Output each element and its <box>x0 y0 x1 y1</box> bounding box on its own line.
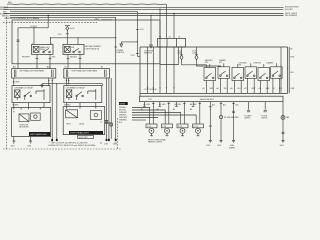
wire L3 ground lead 2 <box>30 137 32 142</box>
terminal black mid 2 <box>108 139 110 141</box>
wire inner vertical 5 <box>173 48 175 88</box>
wire legend feed 1 <box>132 108 150 125</box>
terminal bars b <box>264 110 267 112</box>
svg-text:C552: C552 <box>58 34 62 36</box>
relay K1 contact <box>44 48 50 51</box>
wire bus line 4 <box>4 13 284 15</box>
R2 inner wires <box>69 89 96 100</box>
wire L2 to L3 c <box>43 103 45 108</box>
svg-text:(15A): (15A) <box>178 52 183 55</box>
fuse arrow dash box <box>120 44 123 47</box>
lamp bulb 1 <box>149 128 154 133</box>
node bus tap C <box>159 9 160 10</box>
connector ticks under fuse box strip <box>152 102 235 104</box>
label plate left headlight (black) <box>29 132 50 136</box>
connector ticks drop <box>209 107 212 126</box>
node junction contact feed <box>50 37 51 38</box>
relay box R2 low beam cut <box>64 86 102 103</box>
svg-text:LIGHTS: LIGHTS <box>244 118 251 120</box>
svg-text:TURN SIG: TURN SIG <box>253 62 262 64</box>
svg-text:RED (DIMMER): RED (DIMMER) <box>285 15 297 17</box>
svg-text:HI/LO: HI/LO <box>67 124 72 126</box>
wire K2 out 2 <box>79 54 81 68</box>
wire R3 to mid vertical <box>105 122 112 124</box>
terminal bars spare drops <box>143 106 194 108</box>
relay K1 coil <box>33 46 39 52</box>
svg-text:LOW BEAM CUT RELAY: LOW BEAM CUT RELAY <box>66 87 86 90</box>
svg-text:C512: C512 <box>131 55 135 57</box>
wire hot feed (wavy bus line) <box>7 3 166 5</box>
svg-text:B5: B5 <box>291 48 293 50</box>
svg-text:SW: SW <box>205 62 208 64</box>
svg-text:A3: A3 <box>259 87 261 90</box>
svg-text:G202: G202 <box>217 145 221 147</box>
svg-text:A2: A2 <box>203 87 205 90</box>
svg-text:RIGHT HEADLIGHT: RIGHT HEADLIGHT <box>71 132 90 135</box>
wire L2 to L3 b <box>28 103 30 108</box>
terminal bars a <box>247 110 250 112</box>
connector tick fuse out <box>66 33 69 35</box>
svg-text:G203: G203 <box>206 145 210 147</box>
svg-text:B6: B6 <box>190 109 192 111</box>
wire legend feed 6 <box>132 119 146 121</box>
wire legend feed 5 <box>132 117 158 119</box>
terminal black mid 1 <box>106 139 108 141</box>
svg-text:WHT: WHT <box>8 2 12 4</box>
wire page border dashed left <box>5 17 7 149</box>
svg-text:TAIL: TAIL <box>286 116 289 119</box>
ground G202 <box>220 141 223 143</box>
wire L1 pin b <box>51 78 53 139</box>
wire fuse No.23 out <box>182 60 207 68</box>
R3 hi-lo unit <box>66 110 78 118</box>
wire sw drops and pins <box>206 63 279 93</box>
wire branch to dash fuse <box>121 42 137 44</box>
svg-text:UNDER-HOOD FUSE/RELAY BOX (CAN: UNDER-HOOD FUSE/RELAY BOX (CANADA) <box>4 17 40 20</box>
wire link row upper <box>160 64 179 66</box>
lamp label box 3 <box>177 124 188 128</box>
svg-text:A4: A4 <box>217 87 219 90</box>
lamp bulb 3 <box>180 128 185 133</box>
wire L1 pin a <box>48 78 50 86</box>
lamp label box 2 <box>162 124 173 128</box>
switch SW6 <box>271 67 283 79</box>
svg-text:HAZARD: HAZARD <box>267 61 275 64</box>
svg-text:A16: A16 <box>47 66 50 69</box>
svg-text:No.44: No.44 <box>70 28 75 30</box>
svg-text:LIGHTS RELAY [1]: LIGHTS RELAY [1] <box>85 48 100 51</box>
wire inner vertical 6 <box>178 47 180 65</box>
node dots L <box>48 80 49 81</box>
terminal black side 1 <box>51 139 53 141</box>
legend header plate <box>119 102 128 105</box>
wire feed to power arrow <box>150 16 152 46</box>
node bus tap A <box>48 15 49 16</box>
svg-text:A13: A13 <box>223 103 226 106</box>
fuse No.9 feed <box>195 47 198 55</box>
lamp bulb 4 <box>196 128 201 133</box>
svg-text:A12 RED: A12 RED <box>13 80 21 83</box>
wire drop marker lamp <box>220 102 222 141</box>
wire legend feed 3 <box>132 113 181 125</box>
switch SW5 <box>258 68 270 81</box>
wire relay K1 coil feed <box>33 28 35 45</box>
svg-text:** : LEFT and RIGHT side SPECI: ** : LEFT and RIGHT side SPECIFIC wire H… <box>49 141 89 144</box>
node h2 taps <box>77 37 78 38</box>
connector mid drop 3 <box>110 123 112 126</box>
svg-text:SW: SW <box>239 65 242 67</box>
svg-text:PARKING LIGHTS: PARKING LIGHTS <box>148 141 163 144</box>
wire branch horizontal h1 <box>18 27 48 29</box>
terminal black side 2 <box>56 139 58 141</box>
wire K2 out 1 <box>67 54 69 68</box>
switch SW1 <box>204 68 216 81</box>
svg-text:C1: C1 <box>100 122 102 124</box>
wire stub dash lights a <box>248 102 250 110</box>
wire inner vertical 2 <box>152 47 154 88</box>
svg-text:LEFT HEADLIGHT: LEFT HEADLIGHT <box>30 133 48 136</box>
L3 bulb unit <box>31 113 41 120</box>
relay R2 coil <box>66 90 72 98</box>
svg-text:A12: A12 <box>13 66 16 69</box>
svg-text:SW: SW <box>219 62 222 64</box>
svg-text:B3: B3 <box>157 109 159 111</box>
svg-text:RED/WHT: RED/WHT <box>22 57 30 59</box>
ground G203 <box>209 141 212 143</box>
wire R2 to R3 a <box>65 103 67 107</box>
wire inner vertical 4 <box>165 48 167 88</box>
svg-text:A1: A1 <box>273 87 275 90</box>
node tap power arrow <box>150 15 151 16</box>
wire lamp drop 2 <box>168 102 170 124</box>
dash fuse relay big box <box>140 47 289 96</box>
label plate small white <box>78 135 94 138</box>
lamp bulb 2 <box>165 128 170 133</box>
wire bus line 2 <box>4 8 284 10</box>
fuse tap bar <box>65 25 70 27</box>
wire drop C box 1 <box>159 9 161 38</box>
svg-text:A7 GRN: A7 GRN <box>175 103 182 106</box>
node branch <box>137 41 138 42</box>
connector tick middle feed <box>114 46 117 48</box>
ground G201 a <box>12 141 15 143</box>
svg-text:B4: B4 <box>173 109 175 111</box>
switch SW3 <box>232 68 244 81</box>
wire distribution h2 <box>50 37 115 39</box>
wire inner vertical 1 <box>147 47 149 88</box>
wire lamp drop 1 <box>152 102 154 124</box>
headlight assembly L3 box <box>12 108 51 137</box>
relay K2 contact <box>74 48 80 51</box>
svg-text:B2: B2 <box>141 109 143 111</box>
wire main middle feed <box>115 17 117 139</box>
svg-text:RIGHT HEADLIGHT WIRE HARN.: RIGHT HEADLIGHT WIRE HARN. <box>72 70 98 73</box>
wire R2 to R3 c <box>95 103 97 107</box>
relay K1 box <box>32 44 53 54</box>
wire row to box bottom <box>148 88 175 94</box>
wire cross link <box>42 83 103 85</box>
lamp taillight <box>281 116 285 120</box>
ground G401 <box>282 141 285 143</box>
wire page border dashed bottom <box>3 148 122 150</box>
connector row boxes C <box>158 39 186 48</box>
svg-text:(DASH): (DASH) <box>229 146 235 149</box>
wire L2 to L3 a <box>13 103 15 108</box>
wire R2 to R3 b <box>79 103 81 107</box>
svg-text:HI/LO UNIT: HI/LO UNIT <box>79 137 88 139</box>
node side drop <box>56 83 57 84</box>
L3 hi-lo unit <box>19 114 29 122</box>
svg-text:G401: G401 <box>280 145 284 147</box>
wire bus line 3 <box>10 10 137 12</box>
lamp label box 4 <box>193 124 204 128</box>
connector bars drop <box>232 111 235 112</box>
wire drop to headlight relay coil <box>17 28 19 69</box>
svg-text:A8 GRN: A8 GRN <box>190 103 197 106</box>
lamp side marker <box>219 115 222 118</box>
wire mid drop 2 <box>108 78 110 139</box>
svg-text:C725: C725 <box>148 99 152 101</box>
node link joints <box>48 83 49 84</box>
svg-text:RELAY: RELAY <box>40 48 46 51</box>
wire drop dash ground <box>233 102 235 141</box>
svg-text:HONDA: LEFT 20.5 SELECTOR mark: HONDA: LEFT 20.5 SELECTOR mark SELECT. A… <box>49 144 96 147</box>
wire drop taillight <box>282 102 284 141</box>
svg-text:WHT: WHT <box>252 88 256 90</box>
wire L1 down left <box>13 78 15 86</box>
connector ticks bus3 drop <box>136 29 139 53</box>
node dots R <box>66 80 67 81</box>
wire bus3 drop <box>137 11 140 56</box>
wire stub dash lights b <box>264 102 266 110</box>
wire fuse No.9 out <box>197 60 221 67</box>
node junction coil feed <box>33 27 34 28</box>
dash fuse box strip <box>140 96 284 101</box>
wire lamp drop 3 <box>183 102 185 124</box>
svg-text:C8: C8 <box>169 37 171 39</box>
label plate right headlight (black) <box>69 131 103 134</box>
wire mid drop 1 <box>106 78 108 139</box>
wire R1 pin b <box>68 78 70 84</box>
fuse No.23 diamond <box>180 55 183 60</box>
svg-text:A5 GRN: A5 GRN <box>144 103 151 106</box>
wire inner vertical 3 <box>159 48 161 88</box>
wire L3 ground lead 1 <box>13 137 15 142</box>
lamp label box 1 <box>146 124 157 128</box>
wire spare drops under strip <box>144 102 193 107</box>
svg-text:ADJUSTER: ADJUSTER <box>20 126 30 129</box>
wire lamp drop 4 <box>199 102 201 124</box>
svg-text:LIGHTS: LIGHTS <box>261 118 268 120</box>
wire legend feed 2 <box>132 110 165 124</box>
connector box R1 right headlight harness <box>64 69 110 78</box>
switch SW2 <box>218 67 230 79</box>
svg-text:DRL: DRL <box>71 47 74 49</box>
fuse No.23 feed <box>180 47 183 55</box>
relay K2 coil <box>64 46 70 52</box>
svg-text:A6 GRN: A6 GRN <box>159 103 166 106</box>
svg-text:C7: C7 <box>159 37 161 39</box>
svg-text:LOW BEAM CUT RELAY: LOW BEAM CUT RELAY <box>14 87 34 90</box>
fuse No.9 diamond <box>195 55 198 60</box>
L3 top pin ticks <box>14 108 40 110</box>
wire mid drop 3 <box>110 78 112 139</box>
wire relay K1 contact feed <box>49 38 51 45</box>
connector ticks K outs <box>36 57 82 59</box>
wire K1 out 1 <box>36 54 38 68</box>
node bus tap D <box>173 13 174 14</box>
wire bus line 6 <box>10 16 116 18</box>
svg-text:C736: C736 <box>104 144 108 146</box>
svg-text:MIRRORS: MIRRORS <box>144 53 153 55</box>
L2 inner wires <box>17 89 44 100</box>
svg-text:C510: C510 <box>140 29 144 31</box>
wire legend feed 4 <box>132 115 196 124</box>
R3 bulb unit <box>90 111 101 120</box>
under-hood fuse/relay box <box>12 20 160 64</box>
wire harness drop side <box>56 84 58 139</box>
svg-text:YEL: YEL <box>224 88 227 90</box>
wire right inner vertical <box>280 47 282 93</box>
svg-text:B1 B2 B3 B4 B6: B1 B2 B3 B4 B6 <box>145 89 157 91</box>
svg-text:G201: G201 <box>27 146 31 148</box>
wire relay K2 contact feed <box>77 38 79 45</box>
svg-text:A7: A7 <box>245 87 247 90</box>
wire R1 pin a <box>65 78 67 86</box>
connector box L1 left headlight harness <box>12 69 56 78</box>
headlight assembly R3 box <box>63 107 104 135</box>
svg-text:DASH FUSE BOX: DASH FUSE BOX <box>200 98 215 101</box>
svg-text:LEFT HEADLIGHT WIRE HARN.: LEFT HEADLIGHT WIRE HARN. <box>20 70 45 73</box>
switch SW4 <box>245 67 257 79</box>
connector bars taillight <box>282 132 285 134</box>
relay L2 coil <box>15 90 21 98</box>
wire drop side marker feed <box>209 102 211 141</box>
wire R1 down right pin <box>102 84 104 86</box>
svg-text:A15: A15 <box>236 103 239 106</box>
arrow to power feed <box>150 45 153 48</box>
svg-text:FUSE BOX: FUSE BOX <box>116 52 125 54</box>
wire tap drop x48 <box>47 16 49 28</box>
svg-text:C9: C9 <box>178 37 180 39</box>
wire K1 out 2 <box>49 54 51 68</box>
relay box L2 low beam cut <box>12 86 50 103</box>
wire page border dashed right <box>117 118 119 149</box>
svg-text:A9: A9 <box>231 87 233 90</box>
svg-text:C551: C551 <box>95 18 99 20</box>
svg-text:ELD UNIT: ELD UNIT <box>285 9 293 11</box>
R3 top pin ticks <box>66 107 95 109</box>
svg-text:IGNITION SW: IGNITION SW <box>102 19 113 21</box>
svg-text:RED/BLK: RED/BLK <box>70 57 78 59</box>
svg-text:A11: A11 <box>212 103 215 106</box>
svg-text:G201: G201 <box>11 146 15 148</box>
node junction dots row <box>147 87 148 88</box>
wire feed drop to connector row <box>165 4 167 38</box>
svg-text:(15A): (15A) <box>193 52 198 55</box>
wire bus line 1 <box>4 6 284 8</box>
connector inline ticks <box>17 40 20 42</box>
svg-text:FR SIDE MARKER: FR SIDE MARKER <box>224 116 239 119</box>
relay R2 contact <box>77 92 83 96</box>
relay K2 box <box>63 44 84 54</box>
fuse No.44 diamond <box>66 26 69 31</box>
svg-text:WIRES: WIRES <box>120 103 126 105</box>
wire fuse to relay K2 <box>66 30 68 44</box>
wire drop C box 3 <box>173 14 175 39</box>
ground G301 <box>232 141 235 143</box>
wire page border dashed top <box>3 21 97 23</box>
connector mid drop 1 <box>105 120 107 123</box>
ground G201 b <box>29 141 32 143</box>
wire lamp stubs <box>152 133 199 136</box>
wire link drop arrow <box>41 84 43 85</box>
relay L2 contact <box>25 92 31 96</box>
wire bus line 5 <box>10 15 284 17</box>
terminal black mid feed <box>115 139 117 141</box>
